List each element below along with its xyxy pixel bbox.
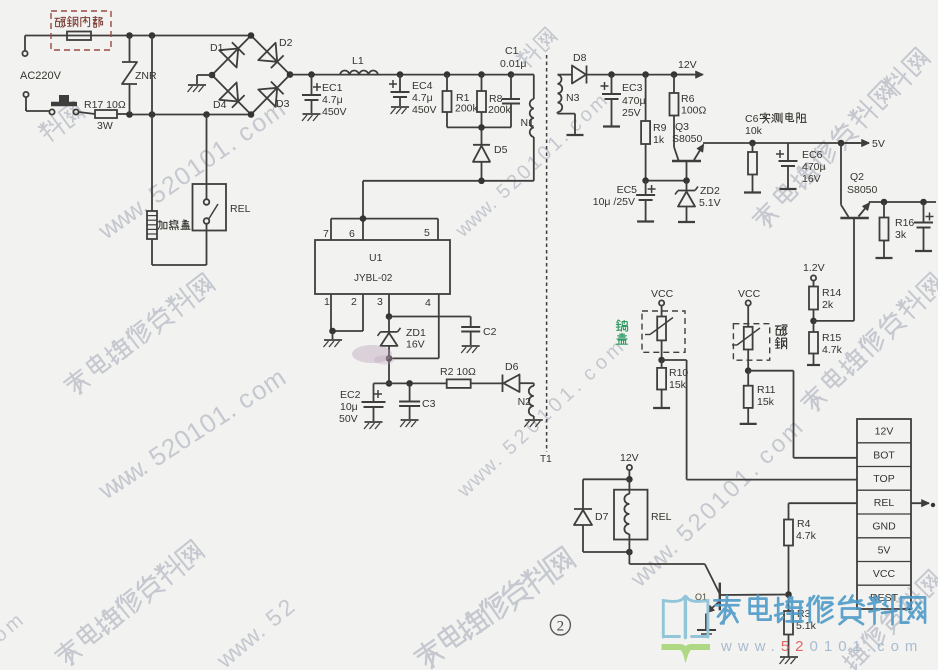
svg-text:ZD2: ZD2 <box>700 185 720 197</box>
svg-text:REL: REL <box>651 511 672 523</box>
svg-text:5V: 5V <box>878 544 891 556</box>
svg-text:5V: 5V <box>872 138 885 150</box>
svg-text:5.1V: 5.1V <box>699 197 721 209</box>
svg-text:R9: R9 <box>653 122 667 134</box>
svg-text:REL: REL <box>230 203 251 215</box>
svg-text:50V: 50V <box>339 413 358 425</box>
svg-text:2: 2 <box>351 296 357 308</box>
svg-text:R15: R15 <box>822 332 841 344</box>
svg-text:3: 3 <box>377 296 383 308</box>
svg-text:R4: R4 <box>797 518 811 530</box>
svg-text:25V: 25V <box>622 107 641 119</box>
svg-text:12V: 12V <box>875 426 894 438</box>
svg-text:EC4: EC4 <box>412 80 433 92</box>
svg-text:C6: C6 <box>745 113 759 125</box>
svg-text:10k: 10k <box>745 125 763 137</box>
svg-text:VCC: VCC <box>651 288 674 300</box>
svg-text:REL: REL <box>874 497 895 509</box>
svg-text:10μ: 10μ <box>340 401 358 413</box>
svg-text:S8050: S8050 <box>672 133 703 145</box>
svg-text:4.7k: 4.7k <box>822 344 843 356</box>
svg-text:N2: N2 <box>518 396 532 408</box>
svg-text:TOP: TOP <box>873 473 894 485</box>
svg-text:C1: C1 <box>505 45 519 57</box>
svg-text:EC1: EC1 <box>322 82 343 94</box>
svg-text:3W: 3W <box>97 120 113 132</box>
svg-text:D3: D3 <box>276 98 290 110</box>
svg-text:200k: 200k <box>455 103 479 115</box>
svg-text:6: 6 <box>349 228 355 240</box>
svg-text:2: 2 <box>557 619 565 635</box>
svg-text:4: 4 <box>425 297 431 309</box>
svg-text:GND: GND <box>872 521 896 533</box>
svg-text:D1: D1 <box>210 42 224 54</box>
svg-text:15k: 15k <box>669 379 687 391</box>
svg-text:EC6: EC6 <box>802 149 823 161</box>
svg-text:D2: D2 <box>279 37 293 49</box>
svg-text:D4: D4 <box>213 99 227 111</box>
svg-text:7: 7 <box>323 228 329 240</box>
svg-text:4.7μ: 4.7μ <box>322 94 343 106</box>
svg-text:16V: 16V <box>802 173 821 185</box>
svg-text:VCC: VCC <box>873 568 896 580</box>
svg-text:C3: C3 <box>422 398 436 410</box>
svg-text:R6: R6 <box>681 93 695 105</box>
svg-text:1.2V: 1.2V <box>803 262 825 274</box>
svg-text:C2: C2 <box>483 326 497 338</box>
svg-text:R14: R14 <box>822 287 841 299</box>
svg-text:U1: U1 <box>369 252 383 264</box>
svg-text:www.520101.com: www.520101.com <box>720 638 923 655</box>
svg-text:12V: 12V <box>620 452 639 464</box>
svg-text:EC5: EC5 <box>617 184 638 196</box>
svg-text:S8050: S8050 <box>847 184 878 196</box>
svg-text:100Ω: 100Ω <box>681 105 707 117</box>
svg-text:10μ /25V: 10μ /25V <box>593 196 635 208</box>
svg-text:470μ: 470μ <box>802 161 826 173</box>
svg-text:200k: 200k <box>488 104 512 116</box>
svg-text:1: 1 <box>324 296 330 308</box>
svg-text:15k: 15k <box>757 396 775 408</box>
svg-text:16V: 16V <box>406 339 425 351</box>
svg-text:EC2: EC2 <box>340 389 361 401</box>
svg-text:N3: N3 <box>566 92 580 104</box>
svg-text:R11: R11 <box>757 384 776 396</box>
svg-text:AC220V: AC220V <box>20 70 62 82</box>
svg-text:2k: 2k <box>822 299 834 311</box>
svg-text:Q3: Q3 <box>675 121 689 133</box>
svg-text:Q2: Q2 <box>850 171 864 183</box>
svg-text:12V: 12V <box>678 59 697 71</box>
svg-text:R16: R16 <box>895 217 914 229</box>
svg-text:1k: 1k <box>653 134 665 146</box>
svg-text:ZD1: ZD1 <box>406 327 426 339</box>
svg-text:EC3: EC3 <box>622 82 643 94</box>
svg-text:L1: L1 <box>352 55 364 67</box>
svg-text:3k: 3k <box>895 229 907 241</box>
svg-text:T1: T1 <box>540 454 552 465</box>
svg-text:R2 10Ω: R2 10Ω <box>440 366 476 378</box>
svg-text:ZNR: ZNR <box>135 70 157 82</box>
svg-text:450V: 450V <box>412 104 437 116</box>
svg-text:450V: 450V <box>322 106 347 118</box>
svg-text:N1: N1 <box>521 117 535 129</box>
svg-text:D8: D8 <box>573 52 587 64</box>
svg-text:D7: D7 <box>595 511 609 523</box>
svg-text:D6: D6 <box>505 361 519 373</box>
svg-text:JYBL-02: JYBL-02 <box>354 273 393 284</box>
svg-text:R10: R10 <box>669 367 688 379</box>
svg-text:VCC: VCC <box>738 288 761 300</box>
svg-text:4.7μ: 4.7μ <box>412 92 433 104</box>
svg-text:0.01μ: 0.01μ <box>500 58 527 70</box>
svg-text:BOT: BOT <box>873 449 895 461</box>
svg-text:4.7k: 4.7k <box>796 530 817 542</box>
svg-text:470μ: 470μ <box>622 95 646 107</box>
svg-text:D5: D5 <box>494 144 508 156</box>
svg-text:5: 5 <box>424 227 430 239</box>
